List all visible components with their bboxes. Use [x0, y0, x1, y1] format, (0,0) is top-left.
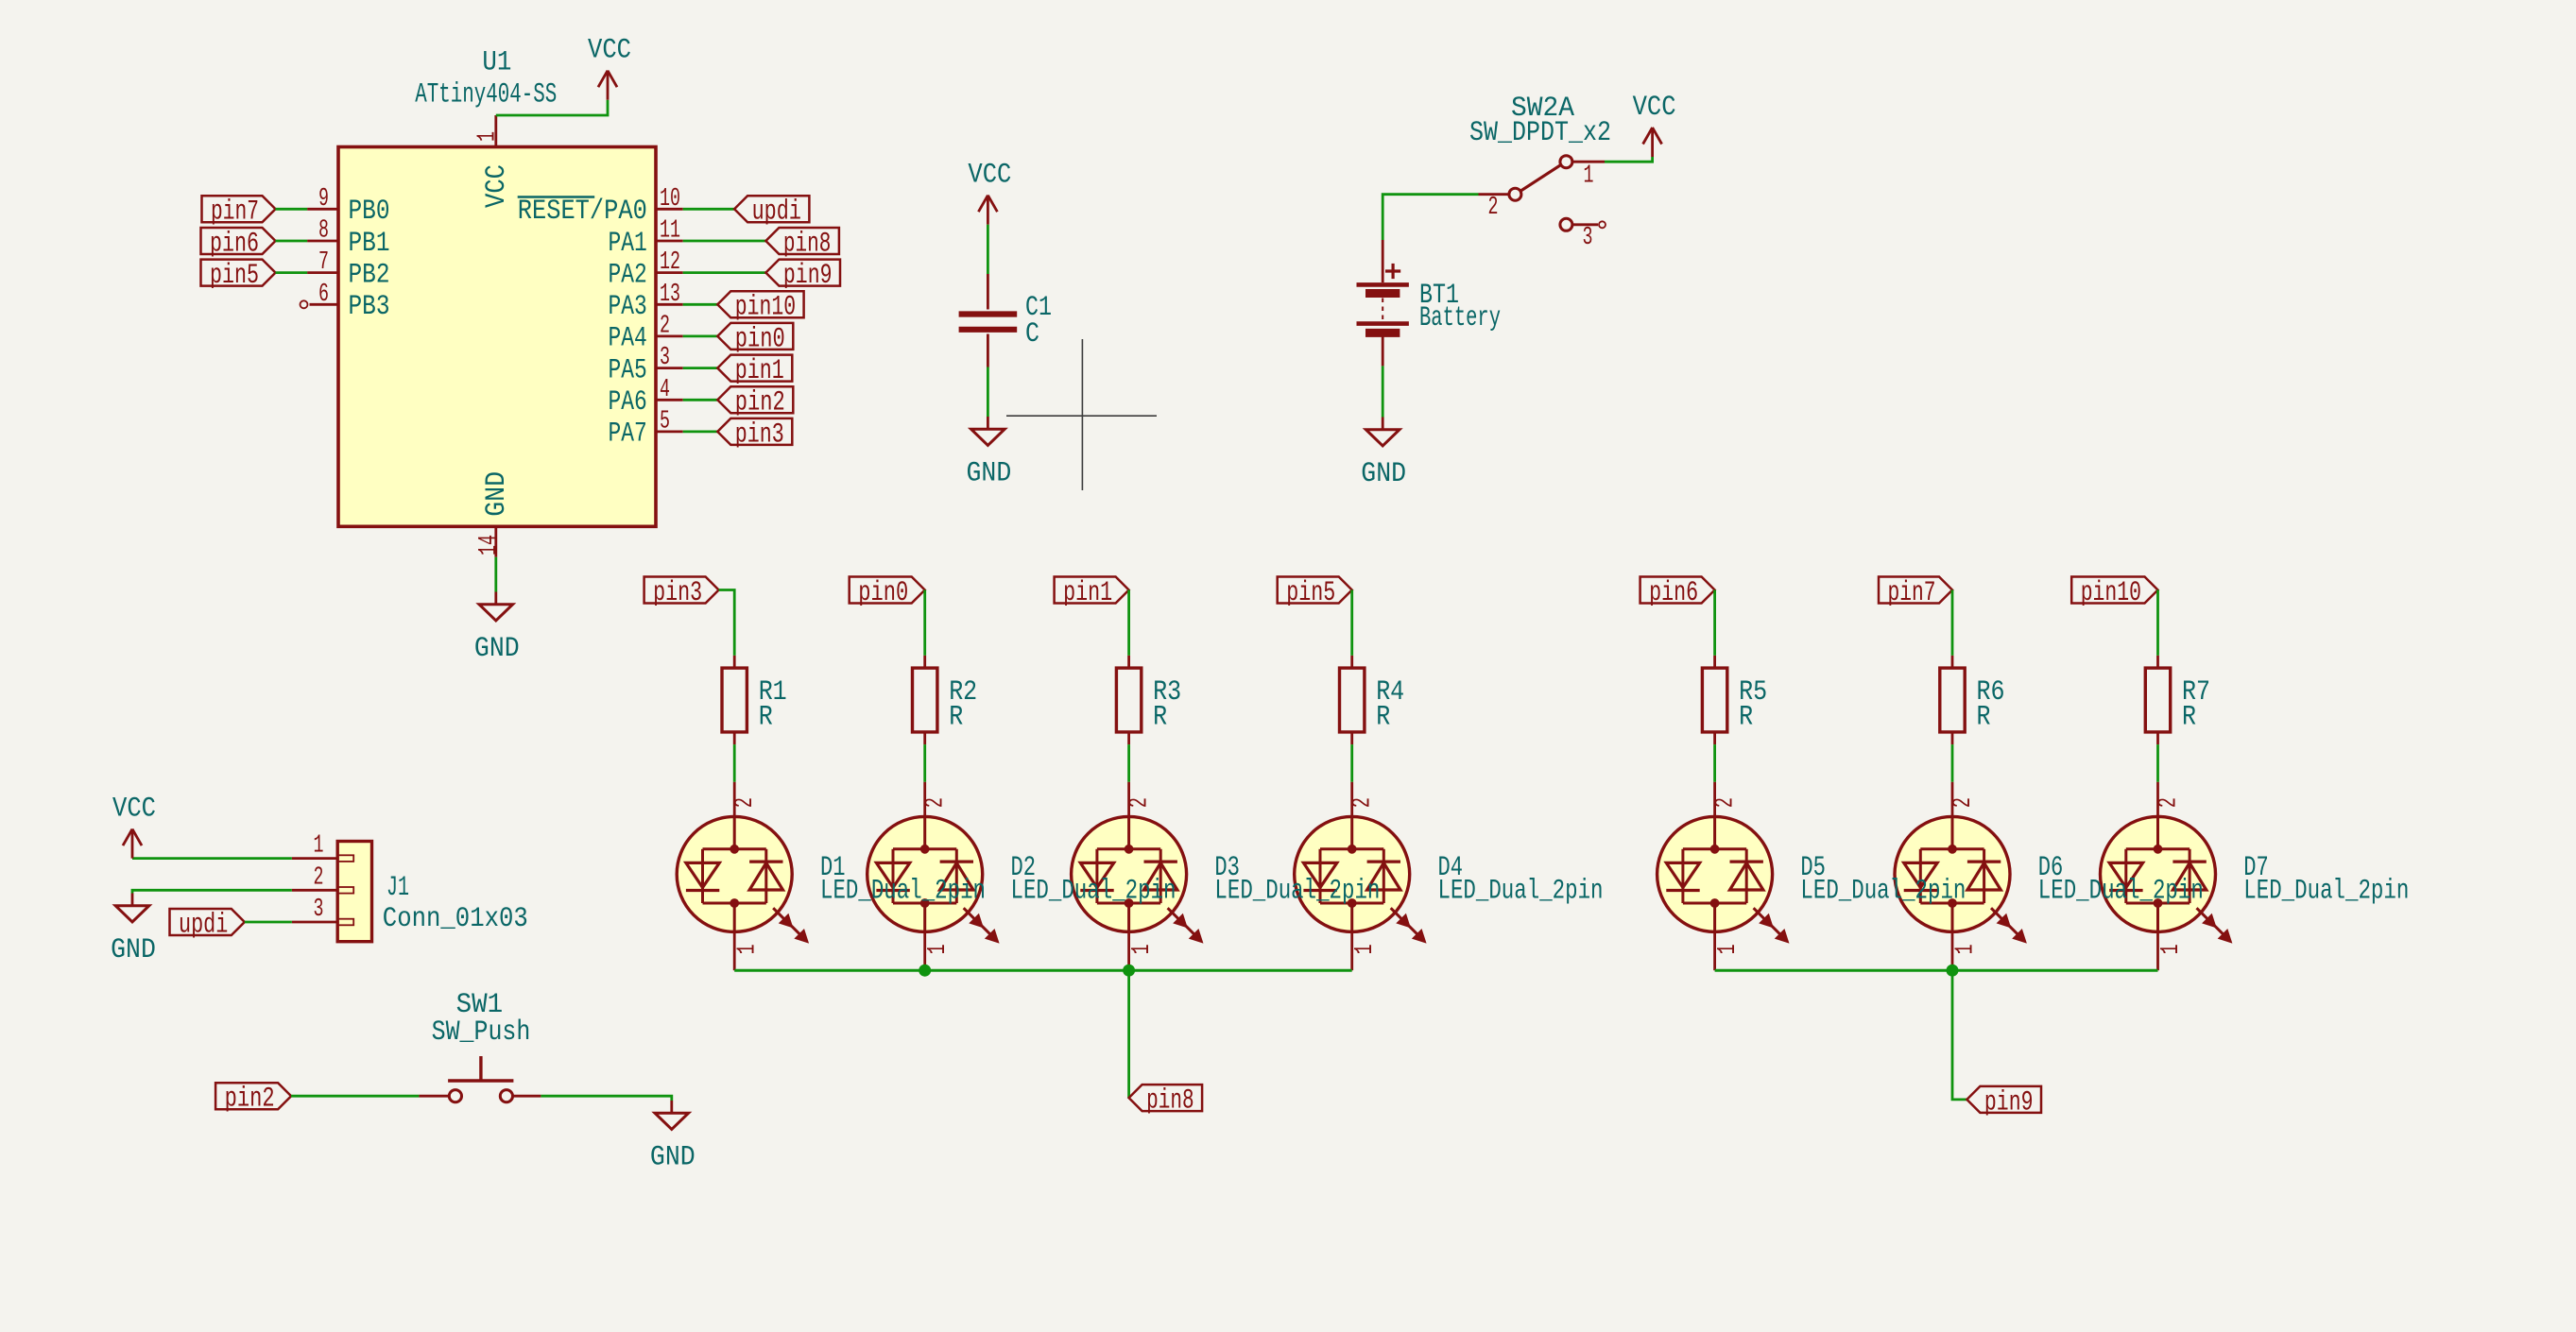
- svg-text:2: 2: [1488, 194, 1499, 222]
- LED D7 LED_Dual_2pin: [2101, 782, 2232, 970]
- U1 VCC pin name (vertical): [481, 164, 513, 208]
- wire R5 to D5: [1713, 744, 1716, 782]
- SW2A reference designator: [1511, 93, 1574, 125]
- wire R7 to D7: [2156, 744, 2159, 782]
- wire R2 to D2: [923, 744, 926, 782]
- D3 reference designator: [1214, 852, 1240, 884]
- power symbol GND below C1: [967, 417, 1012, 490]
- svg-text:VCC: VCC: [112, 794, 156, 826]
- R4 value R: [1376, 702, 1390, 734]
- global label pin2 at U1 right: [717, 386, 793, 418]
- R1 reference designator: [759, 676, 787, 709]
- svg-text:VCC: VCC: [1633, 92, 1676, 124]
- R2 value R: [949, 702, 963, 734]
- switch SW2A contacts and lever: [1509, 156, 1572, 231]
- global label pin7 above R6: [1879, 577, 1952, 609]
- svg-text:PA2: PA2: [609, 259, 647, 291]
- svg-text:R: R: [759, 702, 773, 734]
- wire U1 to pin2 label: [683, 399, 718, 401]
- svg-text:pin8: pin8: [783, 228, 832, 260]
- svg-text:GND: GND: [1361, 458, 1406, 490]
- LED D2 LED_Dual_2pin: [867, 782, 999, 970]
- wire U1 to pin8 label: [683, 240, 766, 243]
- global label pin10 above R7: [2071, 577, 2157, 609]
- svg-text:2: 2: [731, 797, 760, 808]
- svg-text:2: 2: [1126, 797, 1155, 808]
- svg-text:R: R: [1977, 702, 1991, 734]
- wire updi label to J1 pin3: [245, 921, 292, 924]
- svg-text:1: 1: [1714, 944, 1743, 954]
- D2 value LED_Dual_2pin: [1011, 876, 1176, 908]
- BT1 value Battery: [1419, 302, 1501, 334]
- svg-text:R: R: [949, 702, 963, 734]
- R1 value R: [759, 702, 773, 734]
- svg-text:GND: GND: [650, 1142, 696, 1174]
- D6 value LED_Dual_2pin: [2038, 876, 2204, 908]
- LED D5 LED_Dual_2pin: [1657, 782, 1789, 970]
- U1 left pin numbers 9,8,7,6: [318, 185, 329, 309]
- svg-text:pin7: pin7: [211, 196, 259, 229]
- svg-text:pin5: pin5: [1286, 577, 1335, 609]
- svg-text:pin0: pin0: [858, 577, 908, 609]
- svg-text:LED_Dual_2pin: LED_Dual_2pin: [2243, 876, 2409, 908]
- svg-text:GND: GND: [967, 458, 1012, 490]
- J1 pin stubs and numbers: [292, 832, 337, 924]
- svg-text:1: 1: [1351, 944, 1380, 954]
- wire pin3 label to R1: [719, 590, 735, 656]
- svg-text:R: R: [2182, 702, 2196, 734]
- svg-text:LED_Dual_2pin: LED_Dual_2pin: [1800, 876, 1966, 908]
- svg-text:1: 1: [1128, 944, 1157, 954]
- svg-text:1: 1: [314, 832, 324, 861]
- global label updi at U1 right: [734, 196, 809, 228]
- R7 reference designator: [2182, 676, 2210, 709]
- SW2A value SW_DPDT_x2: [1469, 117, 1611, 149]
- D7 reference designator: [2243, 852, 2269, 884]
- global label pin10 at U1 right: [717, 291, 803, 323]
- C1 reference designator: [1025, 292, 1052, 324]
- power symbol GND below BT1: [1361, 418, 1406, 491]
- svg-text:pin3: pin3: [653, 577, 702, 609]
- SW2A pin 2 stub: [1479, 194, 1509, 222]
- U1 reference designator: [482, 47, 511, 79]
- wire J1 pin2 to GND: [132, 890, 292, 893]
- svg-text:updi: updi: [752, 196, 801, 229]
- svg-text:pin6: pin6: [210, 228, 259, 260]
- svg-text:1: 1: [924, 944, 953, 954]
- D6 reference designator: [2038, 852, 2064, 884]
- svg-text:VCC: VCC: [588, 35, 631, 67]
- svg-text:pin0: pin0: [735, 323, 785, 355]
- svg-text:PA7: PA7: [609, 418, 647, 451]
- D4 value LED_Dual_2pin: [1438, 876, 1604, 908]
- U1 left pin stubs: [307, 209, 338, 304]
- power symbol VCC at J1: [112, 794, 156, 859]
- wire pin5 label to PB2: [276, 271, 308, 274]
- power symbol VCC at SW2A: [1633, 92, 1676, 157]
- wire pin10 label to R7: [2156, 590, 2159, 656]
- svg-text:pin3: pin3: [735, 418, 784, 451]
- LED D3 LED_Dual_2pin: [1072, 782, 1203, 970]
- wire BT1 to GND: [1382, 366, 1384, 417]
- U1 value ATtiny404-SS: [415, 78, 557, 111]
- svg-text:PB1: PB1: [349, 228, 390, 260]
- wire SW1 to GND: [541, 1096, 671, 1101]
- svg-text:1: 1: [2157, 944, 2186, 954]
- svg-text:PB2: PB2: [349, 259, 390, 291]
- R6 value R: [1977, 702, 1991, 734]
- U1 right pin names RESET/PA0..PA7: [518, 196, 647, 451]
- resistor R3: [1116, 656, 1141, 744]
- wire SW2A pin2 to battery BT1 plus: [1382, 195, 1478, 240]
- svg-text:3: 3: [1583, 224, 1593, 252]
- svg-text:pin9: pin9: [1984, 1086, 2034, 1119]
- svg-text:2: 2: [1349, 797, 1378, 808]
- power symbol GND at J1: [111, 894, 156, 967]
- svg-text:VCC: VCC: [481, 164, 513, 208]
- svg-text:LED_Dual_2pin: LED_Dual_2pin: [2038, 876, 2204, 908]
- J1 value Conn_01x03: [383, 903, 528, 935]
- svg-text:LED_Dual_2pin: LED_Dual_2pin: [1011, 876, 1176, 908]
- svg-text:Battery: Battery: [1419, 302, 1501, 334]
- svg-text:1: 1: [474, 131, 503, 142]
- D4 reference designator: [1438, 852, 1464, 884]
- wire U1 pin14 to GND: [494, 557, 497, 592]
- svg-text:pin1: pin1: [735, 355, 784, 387]
- global label pin7 at U1 PB0: [202, 196, 276, 228]
- power symbol VCC above C1: [968, 160, 1011, 225]
- svg-text:pin5: pin5: [210, 260, 259, 292]
- wire bus D5-D7 cathodes: [1715, 969, 2158, 972]
- J1 reference designator: [386, 872, 409, 904]
- svg-text:2: 2: [922, 797, 951, 808]
- svg-text:ATtiny404-SS: ATtiny404-SS: [415, 78, 557, 111]
- BT1 reference designator: [1419, 280, 1459, 312]
- global label pin2 at SW1: [215, 1083, 291, 1115]
- svg-text:R: R: [1739, 702, 1753, 734]
- wire bus D1-D4 cathodes: [734, 969, 1351, 972]
- U1 pin 14 GND stub (bottom): [475, 526, 504, 556]
- wire pin1 label to R3: [1127, 590, 1130, 656]
- LED D1 LED_Dual_2pin: [677, 782, 808, 970]
- wire R1 to D1: [733, 744, 736, 782]
- wire C1 to GND: [987, 367, 989, 418]
- battery BT1: [1357, 240, 1409, 366]
- global label pin5 above R4: [1278, 577, 1352, 609]
- capacitor C1: [959, 274, 1018, 367]
- wire R4 to D4: [1350, 744, 1353, 782]
- global label pin9 at bottom: [1966, 1086, 2041, 1119]
- IC U1 ATtiny404-SS body: [338, 147, 656, 527]
- global label updi at J1: [170, 909, 245, 941]
- wire R6 to D6: [1951, 744, 1954, 782]
- wire U1 to pin9 label: [683, 271, 766, 274]
- global label pin1 above R3: [1055, 577, 1129, 609]
- connector J1 Conn_01x03 body: [337, 842, 371, 942]
- svg-text:LED_Dual_2pin: LED_Dual_2pin: [820, 876, 986, 908]
- wire pin6 label to R5: [1713, 590, 1716, 656]
- wire J1 pin1 to VCC: [132, 857, 292, 860]
- R2 reference designator: [949, 676, 977, 709]
- svg-text:RESET/PA0: RESET/PA0: [518, 196, 647, 228]
- wire U1 to pin10 label: [683, 303, 718, 306]
- svg-text:pin6: pin6: [1649, 577, 1698, 609]
- R4 reference designator: [1376, 676, 1404, 709]
- svg-text:1: 1: [1584, 162, 1594, 190]
- svg-text:PB3: PB3: [349, 291, 390, 323]
- svg-text:1: 1: [734, 944, 763, 954]
- svg-text:PA3: PA3: [609, 291, 647, 323]
- svg-text:updi: updi: [179, 909, 228, 941]
- R7 value R: [2182, 702, 2196, 734]
- global label pin0 above R2: [850, 577, 925, 609]
- wire R3 to D3: [1127, 744, 1130, 782]
- R6 reference designator: [1977, 676, 2005, 709]
- resistor R2: [913, 656, 937, 744]
- resistor R4: [1340, 656, 1365, 744]
- svg-text:1: 1: [1951, 944, 1980, 954]
- global label pin0 at U1 right: [717, 323, 793, 355]
- svg-text:GND: GND: [474, 633, 520, 665]
- svg-text:2: 2: [1949, 797, 1978, 808]
- global label pin6 at U1 PB1: [201, 228, 276, 260]
- svg-text:VCC: VCC: [968, 160, 1011, 192]
- svg-text:R: R: [1376, 702, 1390, 734]
- svg-text:pin2: pin2: [735, 387, 785, 419]
- power symbol GND below U1: [474, 592, 520, 666]
- SW2A pin 1 stub: [1572, 162, 1605, 190]
- svg-text:U1: U1: [482, 47, 511, 79]
- global label pin1 at U1 right: [717, 355, 792, 387]
- svg-text:2: 2: [2155, 797, 2184, 808]
- U1 right pin numbers: [660, 185, 680, 436]
- U1 GND pin name (vertical): [481, 471, 513, 517]
- global label pin6 above R5: [1640, 577, 1715, 609]
- global label pin3 at U1 right: [717, 418, 792, 451]
- R5 reference designator: [1739, 676, 1767, 709]
- global label pin9 at U1 right: [765, 260, 840, 292]
- U1 left pin names PB0-PB3: [349, 196, 390, 323]
- global label pin3 above R1: [644, 577, 719, 609]
- svg-text:2: 2: [314, 863, 324, 892]
- wire pin7 label to R6: [1951, 590, 1954, 656]
- svg-text:PA4: PA4: [609, 323, 647, 355]
- svg-text:Conn_01x03: Conn_01x03: [383, 903, 528, 935]
- U1 right pin stubs: [656, 209, 683, 432]
- junction at D3: [1124, 965, 1135, 976]
- R3 reference designator: [1153, 676, 1181, 709]
- resistor R1: [722, 656, 747, 744]
- svg-text:J1: J1: [386, 872, 409, 904]
- R3 value R: [1153, 702, 1167, 734]
- D1 reference designator: [820, 852, 846, 884]
- wire pin0 label to R2: [923, 590, 926, 656]
- D7 value LED_Dual_2pin: [2243, 876, 2409, 908]
- SW1 reference designator: [456, 989, 504, 1021]
- D5 reference designator: [1800, 852, 1826, 884]
- svg-text:PB0: PB0: [349, 196, 390, 228]
- wire U1 to updi label: [683, 208, 734, 211]
- wire junction D3 down to pin8 label: [1127, 970, 1130, 1098]
- D3 value LED_Dual_2pin: [1214, 876, 1380, 908]
- svg-text:pin8: pin8: [1146, 1085, 1194, 1118]
- wire U1 pin1 to VCC: [496, 100, 608, 115]
- wire pin2 label to SW1: [291, 1095, 419, 1098]
- wire U1 to pin1 label: [683, 367, 718, 369]
- LED D4 LED_Dual_2pin: [1295, 782, 1426, 970]
- SW2A pin 3 stub (unconnected): [1572, 221, 1606, 252]
- global label pin5 at U1 PB2: [201, 260, 276, 292]
- global label pin8 at U1 right: [765, 228, 839, 260]
- wire U1 to pin3 label: [683, 430, 718, 433]
- power symbol VCC above U1: [588, 35, 631, 100]
- svg-text:GND: GND: [111, 934, 156, 966]
- SW1 value SW_Push: [432, 1016, 531, 1049]
- U1 pin 1 VCC stub (top): [474, 115, 503, 147]
- wire pin6 label to PB1: [276, 240, 308, 243]
- svg-text:PA6: PA6: [609, 386, 647, 418]
- D2 reference designator: [1011, 852, 1037, 884]
- svg-text:pin7: pin7: [1888, 577, 1936, 609]
- wire SW2A pin1 to VCC: [1605, 157, 1653, 162]
- svg-text:pin10: pin10: [2081, 577, 2141, 609]
- power symbol GND at SW1: [650, 1101, 696, 1174]
- svg-text:PA1: PA1: [609, 228, 647, 260]
- svg-text:14: 14: [475, 535, 504, 555]
- wire junction D6 down to pin9 label: [1952, 970, 1966, 1100]
- R5 value R: [1739, 702, 1753, 734]
- U1 PB3 unconnected pin circle: [301, 300, 308, 308]
- svg-text:pin1: pin1: [1063, 577, 1112, 609]
- svg-text:pin10: pin10: [735, 292, 796, 324]
- svg-text:R: R: [1153, 702, 1167, 734]
- wire U1 to pin0 label: [683, 334, 718, 337]
- junction at D6: [1947, 965, 1958, 976]
- svg-text:2: 2: [1712, 797, 1741, 808]
- wire VCC to C1: [987, 225, 989, 274]
- svg-text:pin9: pin9: [783, 260, 833, 292]
- svg-text:3: 3: [314, 896, 324, 924]
- wire pin7 label to PB0: [276, 208, 308, 211]
- svg-text:SW_DPDT_x2: SW_DPDT_x2: [1469, 117, 1611, 149]
- svg-text:GND: GND: [481, 471, 513, 517]
- wire pin5 label to R4: [1350, 590, 1353, 656]
- push switch SW1: [419, 1056, 541, 1102]
- global label pin8 at bottom: [1129, 1084, 1203, 1117]
- D1 value LED_Dual_2pin: [820, 876, 986, 908]
- svg-text:LED_Dual_2pin: LED_Dual_2pin: [1438, 876, 1604, 908]
- svg-text:C: C: [1025, 318, 1039, 350]
- D5 value LED_Dual_2pin: [1800, 876, 1966, 908]
- sheet crosshair marker: [1006, 339, 1157, 490]
- svg-text:pin2: pin2: [225, 1084, 275, 1116]
- resistor R5: [1702, 656, 1726, 744]
- svg-text:LED_Dual_2pin: LED_Dual_2pin: [1214, 876, 1380, 908]
- C1 value C: [1025, 318, 1039, 350]
- LED D6 LED_Dual_2pin: [1895, 782, 2026, 970]
- junction at D2: [919, 965, 931, 976]
- resistor R6: [1940, 656, 1965, 744]
- svg-text:SW_Push: SW_Push: [432, 1016, 531, 1049]
- resistor R7: [2145, 656, 2170, 744]
- svg-text:PA5: PA5: [609, 354, 647, 386]
